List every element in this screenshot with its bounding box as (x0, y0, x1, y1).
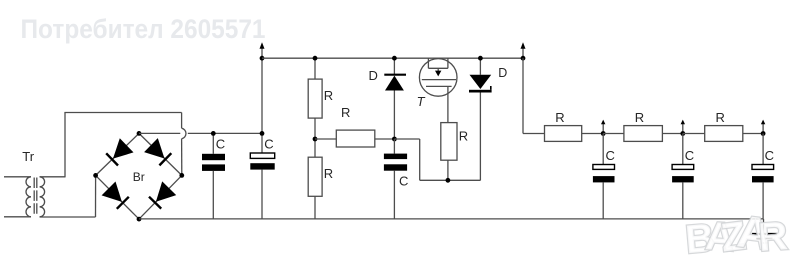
diode D1 bottom lead (393, 91, 395, 140)
wire mid bus left segment (139, 132, 180, 134)
wire top bus down to ladder (522, 58, 524, 133)
svg-text:Tr: Tr (22, 149, 34, 164)
diode D2 bar tick (490, 86, 492, 90)
resistor R4 bottom lead (447, 160, 449, 180)
capacitor C5 top lead (682, 134, 684, 165)
node D1 top bus (392, 56, 397, 61)
resistor R2 body (308, 157, 322, 196)
node ladder junction R7 (761, 131, 766, 136)
wire R3 to node D (375, 138, 395, 140)
svg-text:C: C (606, 148, 615, 163)
capacitor C2 plates (250, 153, 274, 158)
bridge diode bottom-right (149, 197, 161, 209)
output arrow right (522, 48, 524, 58)
wire riser to top link (64, 113, 66, 178)
resistor R3 body (336, 130, 375, 147)
bridge arm left-bottom wire (96, 175, 139, 219)
top bus wire (262, 57, 523, 59)
svg-text:R: R (757, 214, 789, 260)
output arrow at R7 junction (762, 123, 764, 133)
wire mid node to R2 (314, 139, 316, 157)
transformer Tr secondary winding (40, 177, 45, 217)
transistor T source bar (426, 85, 452, 87)
transistor T arrow (437, 68, 439, 71)
diode D2 triangle (470, 75, 492, 89)
wire secondary bottom lead (40, 216, 96, 218)
svg-text:C: C (399, 173, 408, 188)
bridge arm top-right wire (139, 133, 182, 175)
resistor R1 body (308, 79, 322, 118)
svg-text:R: R (341, 105, 350, 120)
svg-text:R: R (459, 129, 468, 144)
node R1 top bus (313, 56, 318, 61)
wire gate bottom horizontal (420, 179, 481, 181)
bridge diode bottom-left (117, 197, 129, 209)
wire R7 to junction (743, 133, 763, 135)
wire hop over bus (182, 128, 186, 139)
capacitor C3 bottom lead (393, 171, 395, 219)
output arrow at R6 junction (682, 123, 684, 133)
wire corner down (419, 139, 421, 180)
diode D1 top lead (393, 58, 395, 75)
wire ladder segment (603, 133, 624, 135)
capacitor C4 plates (593, 165, 615, 170)
resistor R4 body (441, 123, 457, 161)
transistor T body circle (419, 59, 457, 97)
resistor R7 body (705, 126, 743, 142)
svg-text:Br: Br (133, 170, 145, 184)
svg-text:D: D (369, 68, 378, 83)
transformer Tr primary top lead (4, 176, 31, 178)
wire ladder segment (683, 133, 705, 135)
wire node D to corner (394, 138, 419, 140)
output arrow left (261, 48, 263, 58)
svg-text:C: C (264, 137, 273, 152)
svg-text:T: T (417, 94, 426, 109)
node top bus left end (260, 56, 265, 61)
capacitor C1 plates (202, 154, 225, 160)
node bridge top (137, 131, 142, 136)
transistor T drain stubs (427, 58, 429, 68)
resistor R5 body (545, 126, 582, 142)
node C1 bus (211, 131, 216, 136)
output arrow at R5 junction (602, 123, 604, 133)
wire mid node to R3 (315, 138, 336, 140)
wire R2 to ground bus (314, 196, 316, 219)
transformer Tr primary winding (26, 177, 31, 217)
capacitor C4 bottom lead (602, 182, 604, 219)
transformer Tr core (33, 178, 35, 217)
ground bus wire (139, 218, 764, 220)
diode D1 triangle (385, 76, 404, 91)
node top bus right end (521, 56, 526, 61)
node bridge left (93, 173, 98, 178)
capacitor C3 top lead (393, 139, 395, 154)
node D2 top bus (478, 56, 483, 61)
svg-text:R: R (716, 110, 725, 125)
wire R1 to mid node (314, 118, 316, 139)
wire top link horizontal (64, 112, 181, 114)
wire down to crossover hop (181, 113, 183, 129)
node bridge bottom (137, 217, 142, 222)
wire secondary top to riser (40, 176, 65, 178)
wire ladder feed (523, 133, 545, 135)
node D1 C3 junction (392, 137, 397, 142)
capacitor C2 bottom lead (261, 170, 263, 219)
diode D2 top lead (479, 58, 481, 75)
capacitor C5 bottom lead (682, 182, 684, 219)
wire mid bus right segment (188, 132, 262, 134)
wire R6 to junction (662, 133, 682, 135)
capacitor C1 top lead (212, 133, 214, 153)
node bridge right (179, 173, 184, 178)
bridge diode top-left (106, 153, 118, 165)
watermark bazar logo (684, 205, 790, 262)
capacitor C5 plates (672, 165, 694, 170)
node ladder junction R5 (601, 131, 606, 136)
node divider mid (313, 137, 318, 142)
capacitor C4 top lead (602, 134, 604, 165)
node R4 gate wire (446, 178, 451, 183)
svg-text:C: C (216, 137, 225, 152)
ground symbol (763, 219, 765, 234)
capacitor C6 top lead (762, 134, 764, 165)
svg-text:R: R (324, 166, 333, 181)
wire R5 to junction (582, 133, 604, 135)
bridge arm left-top wire (96, 133, 139, 175)
transistor T source lead (447, 86, 449, 122)
transformer Tr primary bottom lead (4, 216, 31, 218)
bridge diode top-right (159, 153, 171, 165)
capacitor C1 bottom lead (212, 171, 214, 219)
svg-text:R: R (555, 110, 564, 125)
svg-text:C: C (765, 148, 774, 163)
wire riser top bus to mid bus (261, 58, 263, 133)
svg-text:R: R (635, 110, 644, 125)
diode D1 cathode bar (384, 74, 406, 76)
svg-text:Потребител 2605571: Потребител 2605571 (21, 14, 266, 44)
node C2 mid bus (260, 131, 265, 136)
bridge arm right-bottom wire (139, 175, 182, 219)
transistor T gate bar (422, 79, 456, 81)
diode D2 bottom lead (479, 93, 481, 181)
wire riser to bridge left node (95, 175, 97, 217)
capacitor C2 top lead (261, 133, 263, 153)
diode D2 cathode bar (469, 90, 492, 93)
svg-text:R: R (324, 88, 333, 103)
svg-text:C: C (685, 148, 694, 163)
capacitor C6 bottom lead (762, 182, 764, 219)
resistor R1 top lead (314, 58, 316, 79)
wire hop to bridge right node (181, 139, 183, 176)
node ladder junction R6 (680, 131, 685, 136)
capacitor C3 plates (384, 154, 407, 160)
capacitor C6 plates (752, 165, 774, 170)
resistor R6 body (624, 126, 663, 142)
svg-text:D: D (498, 66, 507, 80)
